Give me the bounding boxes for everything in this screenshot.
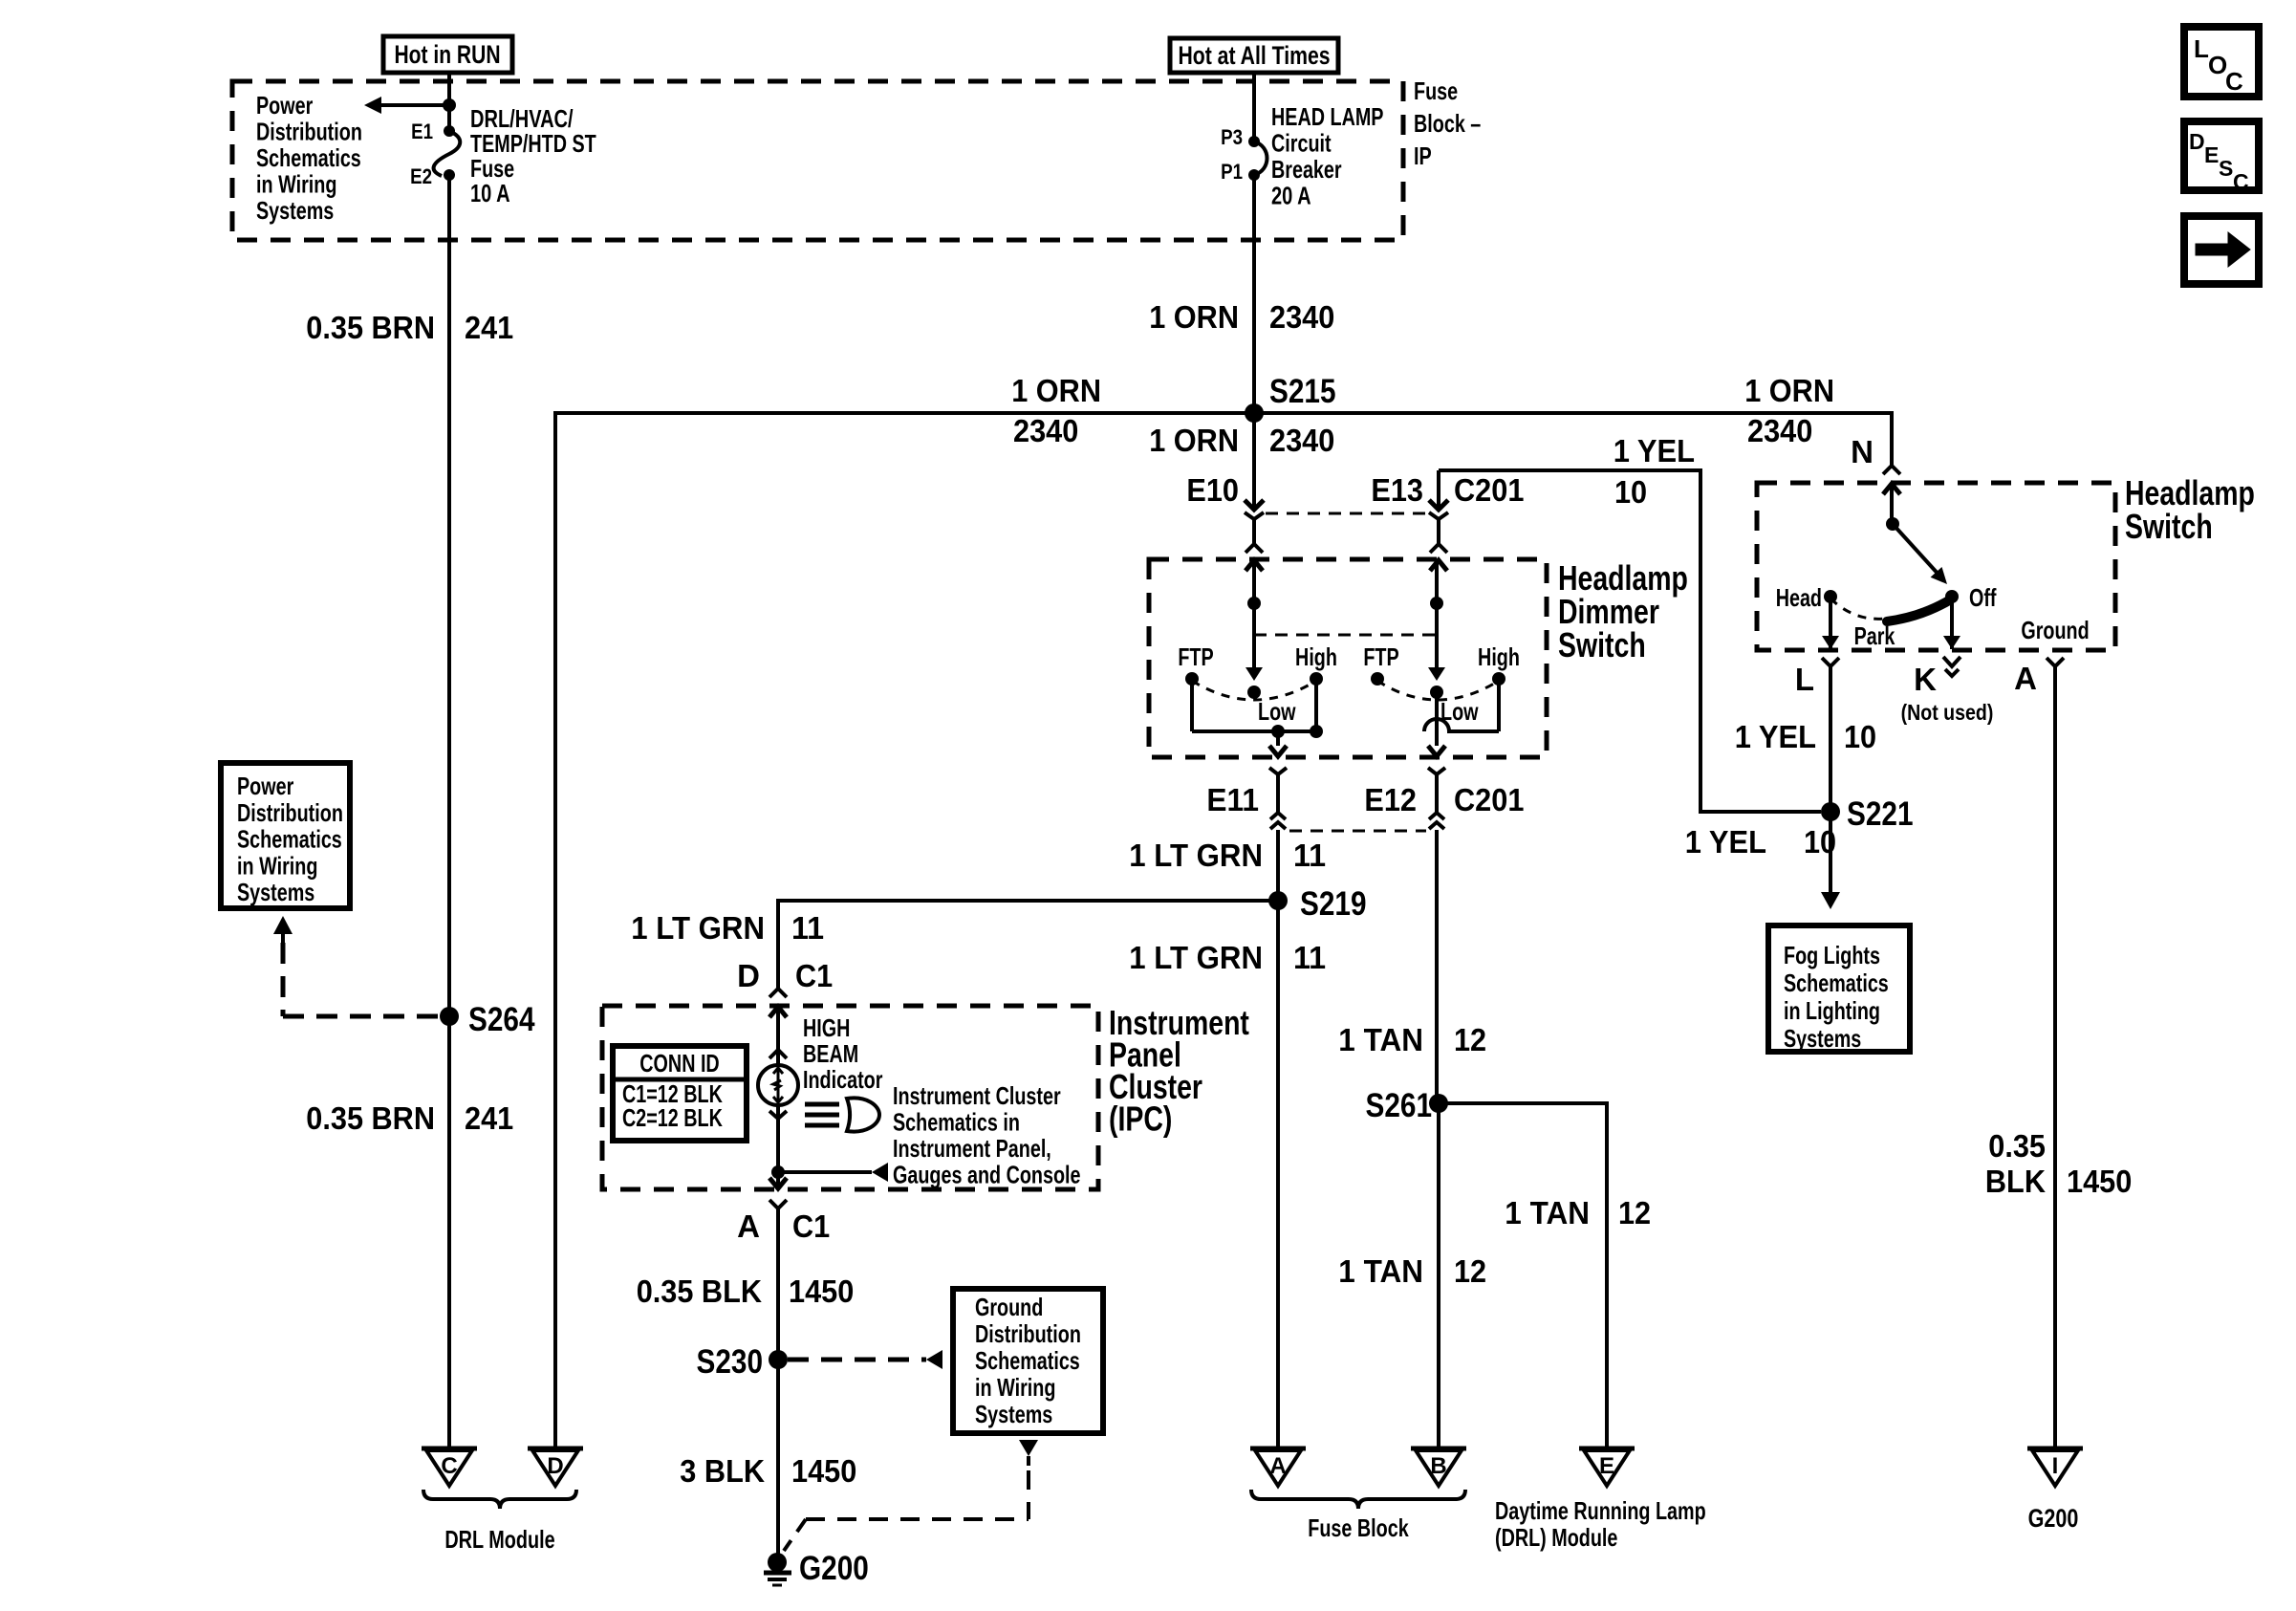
svg-text:E: E bbox=[2204, 142, 2219, 167]
fuse block IP dashed box bbox=[232, 81, 1403, 240]
contact Head bbox=[1824, 590, 1837, 603]
svg-text:1450: 1450 bbox=[791, 1453, 856, 1489]
svg-text:11: 11 bbox=[1293, 940, 1326, 975]
dashed arc Head-Park bbox=[1830, 599, 1885, 619]
svg-text:BLK: BLK bbox=[1985, 1164, 2046, 1199]
svg-text:Gauges and Console: Gauges and Console bbox=[893, 1161, 1081, 1189]
fuse DRL/HVAC/TEMP/HTD ST 10A bbox=[444, 125, 455, 137]
svg-text:2340: 2340 bbox=[1269, 299, 1334, 335]
svg-text:241: 241 bbox=[465, 310, 513, 345]
svg-text:Hot in RUN: Hot in RUN bbox=[394, 40, 500, 69]
svg-text:10 A: 10 A bbox=[470, 179, 510, 207]
svg-text:1 LT GRN: 1 LT GRN bbox=[1129, 940, 1263, 975]
svg-text:1 LT GRN: 1 LT GRN bbox=[631, 910, 765, 946]
svg-text:Breaker: Breaker bbox=[1271, 155, 1342, 184]
svg-text:Indicator: Indicator bbox=[803, 1065, 882, 1094]
node S264 bbox=[440, 1007, 459, 1026]
wire S219 down bbox=[1276, 901, 1280, 1448]
High right leg bbox=[1497, 679, 1501, 731]
wire bulb down bbox=[776, 1105, 780, 1188]
svg-text:1450: 1450 bbox=[789, 1274, 854, 1309]
contact FTP right bbox=[1371, 672, 1384, 686]
svg-text:1 TAN: 1 TAN bbox=[1338, 1022, 1423, 1057]
switch arm bbox=[1893, 524, 1940, 577]
svg-text:I: I bbox=[2052, 1453, 2059, 1479]
svg-text:E: E bbox=[1599, 1453, 1614, 1479]
connector K bbox=[1943, 657, 1960, 666]
connector L bbox=[1822, 658, 1839, 666]
svg-text:IP: IP bbox=[1414, 142, 1432, 170]
svg-text:0.35 BRN: 0.35 BRN bbox=[306, 310, 435, 345]
svg-text:1 YEL: 1 YEL bbox=[1735, 719, 1816, 754]
svg-text:C: C bbox=[2233, 169, 2249, 194]
svg-text:1 TAN: 1 TAN bbox=[1338, 1253, 1423, 1289]
box Fog Lights Schematics bbox=[1768, 925, 1910, 1052]
wire bus corner to N bbox=[1890, 411, 1894, 466]
gang line E11-E12 bbox=[1289, 830, 1426, 833]
svg-text:C1: C1 bbox=[795, 958, 833, 993]
wire below S261 to triangle B bbox=[1437, 1103, 1440, 1448]
right bus with hop bbox=[1424, 719, 1499, 731]
svg-text:1 ORN: 1 ORN bbox=[1011, 373, 1101, 408]
svg-text:Ground: Ground bbox=[2021, 616, 2089, 644]
high beam icon bbox=[805, 1102, 839, 1107]
svg-text:BEAM: BEAM bbox=[803, 1039, 858, 1068]
header box Hot in RUN bbox=[383, 36, 512, 73]
svg-text:10: 10 bbox=[1614, 474, 1647, 510]
svg-text:Instrument Cluster: Instrument Cluster bbox=[893, 1081, 1061, 1110]
contact High left bbox=[1310, 672, 1323, 686]
node S219 bbox=[1268, 891, 1288, 910]
branch to E bbox=[1439, 1101, 1609, 1105]
svg-text:Switch: Switch bbox=[2125, 507, 2213, 546]
wire 0.35 BRN 241 upper bbox=[447, 175, 451, 1448]
svg-text:2340: 2340 bbox=[1269, 423, 1334, 458]
thick wiper Off position bbox=[1887, 600, 1949, 621]
svg-text:1450: 1450 bbox=[2067, 1164, 2132, 1199]
svg-text:Low: Low bbox=[1258, 697, 1296, 726]
ref dashed to ground box bbox=[788, 1358, 926, 1362]
svg-text:C201: C201 bbox=[1454, 782, 1524, 817]
right output wire through hop bbox=[1435, 692, 1439, 746]
svg-text:HIGH: HIGH bbox=[803, 1013, 850, 1042]
wire branch to arrow bbox=[378, 103, 449, 107]
svg-text:Instrument Panel,: Instrument Panel, bbox=[893, 1134, 1051, 1163]
pivot wire bbox=[1890, 484, 1894, 524]
svg-text:L: L bbox=[2194, 34, 2209, 63]
svg-text:20 A: 20 A bbox=[1271, 182, 1311, 210]
svg-text:B: B bbox=[1430, 1453, 1446, 1479]
wire 1 ORN 2340 to S215 bbox=[1252, 175, 1256, 413]
dimmer left pole wire bbox=[1252, 560, 1256, 669]
svg-text:(Not used): (Not used) bbox=[1901, 700, 1994, 725]
svg-text:S264: S264 bbox=[468, 1001, 535, 1038]
node S215 bbox=[1245, 403, 1264, 423]
svg-text:S219: S219 bbox=[1300, 885, 1367, 923]
svg-text:12: 12 bbox=[1618, 1195, 1651, 1230]
contact Off bbox=[1945, 590, 1959, 603]
svg-text:11: 11 bbox=[1293, 838, 1326, 873]
svg-text:Schematics in: Schematics in bbox=[893, 1108, 1020, 1137]
svg-text:C: C bbox=[441, 1453, 457, 1479]
junction bbox=[1247, 597, 1261, 610]
svg-text:0.35 BRN: 0.35 BRN bbox=[306, 1100, 435, 1136]
junction bbox=[1430, 597, 1443, 610]
node S221 bbox=[1821, 802, 1840, 821]
L exit arrow bbox=[1829, 597, 1832, 649]
svg-text:E11: E11 bbox=[1206, 782, 1259, 817]
left bus bbox=[1192, 729, 1316, 733]
svg-text:D: D bbox=[547, 1453, 563, 1479]
ref line to text bbox=[778, 1170, 872, 1174]
CONN ID table bbox=[613, 1046, 747, 1141]
svg-text:2340: 2340 bbox=[1013, 413, 1078, 448]
svg-text:D: D bbox=[2189, 129, 2205, 154]
svg-text:N: N bbox=[1851, 434, 1874, 469]
wiper arc left bbox=[1192, 681, 1316, 700]
box Power Distribution (solid) bbox=[221, 763, 350, 908]
headlamp dimmer switch box bbox=[1149, 559, 1547, 757]
right pole arrow bbox=[1428, 667, 1445, 681]
svg-text:C: C bbox=[2225, 67, 2243, 96]
box Ground Distribution Schematics in Wiring Systems bbox=[953, 1289, 1103, 1433]
svg-text:S: S bbox=[2219, 156, 2233, 181]
svg-text:S215: S215 bbox=[1269, 373, 1336, 410]
wiper arc right bbox=[1377, 681, 1499, 700]
svg-text:Distribution: Distribution bbox=[256, 118, 362, 146]
node S230 bbox=[769, 1350, 788, 1369]
high beam indicator bulb bbox=[758, 1065, 798, 1105]
svg-text:Switch: Switch bbox=[1558, 625, 1646, 664]
header box Hot at All Times bbox=[1170, 38, 1338, 73]
FTP left leg bbox=[1190, 679, 1194, 731]
svg-text:Daytime Running Lamp: Daytime Running Lamp bbox=[1495, 1496, 1706, 1525]
svg-text:E10: E10 bbox=[1186, 472, 1239, 508]
arrow into fog box bbox=[1821, 892, 1840, 909]
wire down to G200 bbox=[776, 1208, 780, 1562]
svg-text:Ground: Ground bbox=[975, 1293, 1043, 1321]
connector C triangle bbox=[422, 1447, 477, 1451]
wire Hot at All Times feed bbox=[1252, 73, 1256, 142]
svg-text:E2: E2 bbox=[410, 164, 432, 188]
svg-text:P1: P1 bbox=[1221, 160, 1243, 184]
K exit arrow bbox=[1950, 597, 1954, 649]
svg-text:E13: E13 bbox=[1371, 472, 1423, 508]
connector A ground bbox=[2047, 658, 2064, 666]
High left leg bbox=[1314, 679, 1318, 731]
svg-text:DRL Module: DRL Module bbox=[444, 1525, 554, 1554]
gang dashed line bbox=[1254, 634, 1437, 637]
svg-text:A: A bbox=[1269, 1453, 1286, 1479]
svg-text:Systems: Systems bbox=[1784, 1024, 1861, 1053]
wire 1 ORN 2340 to E10 bbox=[1252, 413, 1256, 510]
ground G200 bbox=[768, 1553, 787, 1572]
svg-text:Block –: Block – bbox=[1414, 109, 1481, 138]
svg-text:Distribution: Distribution bbox=[237, 798, 343, 827]
wire 1 YEL 10 L to S221 bbox=[1829, 666, 1832, 892]
svg-text:High: High bbox=[1478, 642, 1520, 671]
svg-text:1 YEL: 1 YEL bbox=[1685, 824, 1766, 860]
svg-text:in Lighting: in Lighting bbox=[1784, 996, 1880, 1025]
svg-text:Off: Off bbox=[1969, 583, 1997, 612]
connector E triangle bbox=[1579, 1447, 1635, 1451]
svg-text:1 ORN: 1 ORN bbox=[1744, 373, 1834, 408]
left low contact bbox=[1247, 686, 1261, 699]
svg-text:C2=12 BLK: C2=12 BLK bbox=[622, 1103, 723, 1132]
svg-text:Schematics: Schematics bbox=[975, 1346, 1080, 1375]
svg-text:Fog Lights: Fog Lights bbox=[1784, 941, 1880, 969]
svg-text:L: L bbox=[1795, 662, 1814, 697]
icon LOC bbox=[2184, 27, 2259, 97]
svg-text:in Wiring: in Wiring bbox=[975, 1373, 1056, 1402]
connector gang line E10-E13 bbox=[1266, 512, 1427, 515]
svg-text:Schematics: Schematics bbox=[256, 143, 361, 172]
right low contact bbox=[1430, 686, 1443, 699]
svg-text:1 ORN: 1 ORN bbox=[1149, 299, 1239, 335]
svg-text:C1: C1 bbox=[792, 1208, 830, 1244]
svg-text:12: 12 bbox=[1454, 1253, 1486, 1289]
wire into bulb bbox=[776, 1007, 780, 1065]
svg-text:(IPC): (IPC) bbox=[1109, 1099, 1172, 1139]
svg-text:Head: Head bbox=[1776, 583, 1822, 612]
svg-text:in Wiring: in Wiring bbox=[256, 170, 337, 199]
svg-text:in Wiring: in Wiring bbox=[237, 851, 318, 880]
wire S215 bus bbox=[555, 411, 1892, 415]
svg-text:Fuse: Fuse bbox=[1414, 76, 1458, 105]
svg-text:Hot at All Times: Hot at All Times bbox=[1178, 41, 1330, 70]
svg-text:K: K bbox=[1914, 662, 1937, 697]
svg-text:FTP: FTP bbox=[1178, 642, 1213, 671]
svg-text:0.35: 0.35 bbox=[1988, 1128, 2046, 1164]
svg-text:HEAD LAMP: HEAD LAMP bbox=[1271, 102, 1384, 131]
svg-text:Power: Power bbox=[256, 91, 313, 120]
pivot bbox=[1886, 517, 1899, 531]
svg-text:FTP: FTP bbox=[1363, 642, 1398, 671]
svg-text:(DRL) Module: (DRL) Module bbox=[1495, 1523, 1617, 1552]
brace DRL module bbox=[423, 1490, 576, 1509]
connector E12 C201 bbox=[1428, 746, 1445, 756]
left pole arrow bbox=[1245, 667, 1263, 681]
instrument panel cluster box bbox=[602, 1006, 1098, 1189]
svg-text:Power: Power bbox=[237, 772, 293, 800]
circuit breaker HEAD LAMP 20A bbox=[1248, 136, 1260, 147]
node S261 bbox=[1429, 1094, 1448, 1113]
svg-text:1 LT GRN: 1 LT GRN bbox=[1129, 838, 1263, 873]
svg-text:Circuit: Circuit bbox=[1271, 129, 1332, 158]
junction bbox=[771, 1165, 785, 1179]
svg-text:D: D bbox=[737, 958, 760, 993]
svg-text:Systems: Systems bbox=[975, 1400, 1052, 1428]
svg-text:S221: S221 bbox=[1847, 795, 1914, 833]
connector I triangle bbox=[2027, 1447, 2083, 1451]
ref dashed to power box bbox=[283, 1014, 440, 1019]
svg-text:Distribution: Distribution bbox=[975, 1319, 1081, 1348]
svg-text:Systems: Systems bbox=[237, 878, 314, 906]
wire 1 YEL 10 bbox=[1439, 470, 1821, 812]
svg-text:S230: S230 bbox=[697, 1343, 764, 1381]
svg-text:1 TAN: 1 TAN bbox=[1505, 1195, 1590, 1230]
svg-text:E1: E1 bbox=[411, 120, 433, 143]
svg-text:0.35 BLK: 0.35 BLK bbox=[637, 1274, 762, 1309]
connector B triangle bbox=[1411, 1447, 1466, 1451]
svg-text:10: 10 bbox=[1804, 824, 1836, 860]
svg-text:A: A bbox=[2014, 661, 2037, 696]
connector E11 bbox=[1269, 746, 1287, 756]
S219 branch to IPC bbox=[776, 899, 1278, 903]
svg-text:G200: G200 bbox=[799, 1550, 869, 1587]
svg-text:10: 10 bbox=[1844, 719, 1876, 754]
svg-text:High: High bbox=[1295, 642, 1337, 671]
svg-text:CONN ID: CONN ID bbox=[639, 1049, 719, 1078]
wire to DRL module D bbox=[553, 411, 557, 1448]
wire 0.35 BLK 1450 ground bbox=[2053, 666, 2057, 1448]
connector D triangle bbox=[528, 1447, 583, 1451]
contact FTP left bbox=[1185, 672, 1199, 686]
connector A triangle bbox=[1250, 1447, 1306, 1451]
brace Fuse Block bbox=[1251, 1490, 1465, 1509]
svg-text:2340: 2340 bbox=[1747, 413, 1812, 448]
svg-text:241: 241 bbox=[465, 1100, 513, 1136]
junction at feed bbox=[443, 98, 456, 112]
icon arrow bbox=[2184, 216, 2259, 284]
svg-text:1 ORN: 1 ORN bbox=[1149, 423, 1239, 458]
dimmer right pole wire bbox=[1435, 560, 1439, 669]
icon DESC bbox=[2184, 121, 2259, 190]
svg-text:3 BLK: 3 BLK bbox=[680, 1453, 765, 1489]
svg-text:12: 12 bbox=[1454, 1022, 1486, 1057]
svg-text:1 YEL: 1 YEL bbox=[1614, 433, 1695, 468]
svg-text:A: A bbox=[737, 1208, 760, 1244]
svg-text:C201: C201 bbox=[1454, 472, 1524, 508]
svg-text:Schematics: Schematics bbox=[237, 825, 342, 854]
ref arrow below box bbox=[1019, 1440, 1038, 1456]
svg-text:S261: S261 bbox=[1366, 1087, 1433, 1124]
wire Hot in RUN feed bbox=[447, 73, 451, 131]
svg-text:P3: P3 bbox=[1221, 125, 1243, 149]
contact High right bbox=[1492, 672, 1505, 686]
svg-text:Fuse Block: Fuse Block bbox=[1308, 1513, 1409, 1542]
svg-text:G200: G200 bbox=[2028, 1504, 2079, 1533]
headlamp switch box bbox=[1757, 483, 2115, 650]
left output wire bbox=[1276, 731, 1280, 746]
svg-text:Schematics: Schematics bbox=[1784, 969, 1889, 997]
connector A C1 bbox=[769, 1178, 787, 1188]
svg-text:E12: E12 bbox=[1364, 782, 1417, 817]
svg-text:Park: Park bbox=[1854, 621, 1895, 650]
svg-text:11: 11 bbox=[791, 910, 824, 946]
svg-text:Systems: Systems bbox=[256, 196, 334, 225]
